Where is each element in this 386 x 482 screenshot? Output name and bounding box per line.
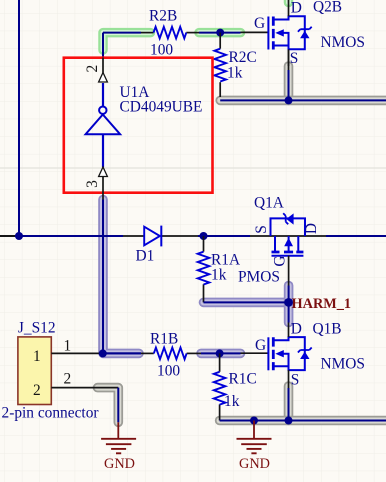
transistor Q2B [241, 0, 312, 66]
node: junction pin1 / pin3 [99, 349, 107, 357]
node: junction R1A top on rail [200, 232, 208, 240]
resistor R1A [198, 236, 210, 302]
wire: core of R1B right purple segment [201, 352, 241, 354]
svg-text:D: D [303, 223, 320, 234]
node: junction R1B / R1C / Q1B gate [216, 349, 224, 357]
transistor Q1A [250, 213, 326, 285]
svg-text:2-pin connector: 2-pin connector [2, 405, 99, 422]
purple net highlight: HARM_1 horizontal from R1A [204, 298, 289, 308]
ground GND (right power port) [237, 421, 272, 454]
svg-text:3: 3 [84, 180, 101, 188]
svg-text:NMOS: NMOS [321, 34, 365, 51]
svg-text:S: S [291, 372, 300, 389]
svg-text:G: G [254, 15, 265, 32]
svg-text:Q1A: Q1A [254, 195, 284, 212]
gray net highlight: Q2B source bus [220, 66, 386, 100]
purple net highlight: U1A pin3 down to R1B row [103, 200, 139, 354]
svg-text:D: D [291, 321, 302, 338]
svg-text:1: 1 [33, 348, 41, 365]
resistor R1B [141, 348, 201, 360]
gray net highlight: bottom GND bus [220, 386, 386, 421]
wire: bottom bus core [220, 420, 386, 422]
svg-text:2: 2 [33, 382, 41, 399]
svg-text:Q2B: Q2B [313, 0, 342, 16]
wire: HARM_1 net horizontal core [204, 301, 289, 303]
svg-text:100: 100 [157, 363, 180, 380]
svg-text:G: G [272, 255, 289, 266]
resistor R2C [214, 33, 226, 97]
node: junction GND stem on bus [250, 417, 258, 425]
wire: Q1B source drop core [288, 388, 290, 421]
resistor R2B [141, 27, 199, 39]
wire: Q2B source drop core [288, 49, 290, 100]
svg-text:HARM_1: HARM_1 [292, 296, 352, 312]
svg-text:GND: GND [104, 456, 135, 472]
resistor R1C [214, 353, 226, 420]
svg-text:1k: 1k [227, 65, 243, 82]
svg-text:Q1B: Q1B [313, 321, 342, 338]
wire: pin2 to GND core [99, 388, 118, 423]
purple net highlight: Q1A gate to Q1B drain vertical [284, 286, 294, 323]
svg-text:D1: D1 [136, 248, 155, 265]
svg-text:PMOS: PMOS [238, 269, 280, 286]
wire: Q1A gate to Q1B drain core [288, 286, 290, 323]
svg-text:S: S [290, 50, 299, 67]
inverter U1A [86, 58, 121, 200]
svg-text:D: D [291, 0, 302, 17]
svg-text:R1B: R1B [150, 331, 178, 348]
node: junction HARM_1 [284, 298, 293, 307]
svg-text:1k: 1k [224, 393, 240, 410]
svg-text:R2C: R2C [229, 49, 257, 66]
wire: bus core from R2C to right edge [220, 99, 386, 101]
diode D1 [123, 226, 198, 247]
wire: left vertical net entering from top [18, 0, 20, 236]
svg-text:R2B: R2B [149, 8, 177, 25]
node: junction Q2B source on bus [285, 96, 293, 104]
svg-text:1k: 1k [211, 267, 227, 284]
svg-text:R1C: R1C [229, 371, 257, 388]
svg-text:NMOS: NMOS [321, 356, 365, 373]
green highlight on net from U1A pin2 to R2B and Q2B gate [103, 0, 289, 50]
gray net highlight: pin2 to GND [98, 388, 119, 423]
node: junction R2B / R2C / Q2B gate [216, 29, 224, 37]
connector J_S12 [18, 337, 103, 405]
svg-text:CD4049UBE: CD4049UBE [120, 99, 203, 116]
svg-text:G: G [255, 337, 266, 354]
node: junction Q1B source on bus [285, 417, 293, 425]
svg-text:S: S [253, 225, 270, 234]
purple net highlight: R1B right segment [201, 349, 241, 359]
svg-text:2: 2 [64, 371, 72, 388]
op-amp U1A red selection box [64, 58, 213, 193]
ground GND (left power port) [101, 422, 136, 453]
svg-text:J_S12: J_S12 [18, 320, 56, 337]
wire: main horizontal rail [15, 235, 386, 237]
wire: top net segments at R2B row [103, 33, 241, 58]
svg-text:2: 2 [84, 65, 101, 73]
svg-text:1: 1 [64, 338, 72, 355]
node: junction left rail [15, 232, 23, 240]
transistor Q1B [241, 323, 312, 389]
svg-text:GND: GND [239, 456, 270, 472]
wire: stub from left edge to junction [0, 235, 15, 237]
wire: R1B row core from junction [103, 352, 141, 354]
wire: pin3 net core vertical and to R1B [103, 200, 141, 354]
svg-text:100: 100 [150, 42, 173, 59]
